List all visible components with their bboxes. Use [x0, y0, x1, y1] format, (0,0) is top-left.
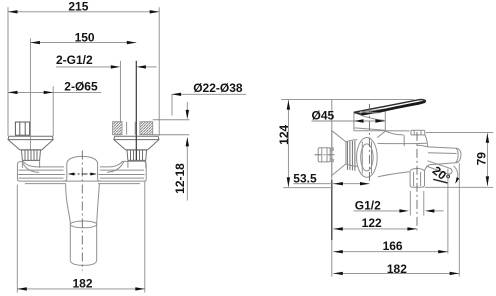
- eccentric pipe to wall: [153, 120, 190, 135]
- dim 79: [474, 133, 489, 186]
- dim Ø45: [312, 109, 385, 123]
- svg-text:182: 182: [387, 262, 407, 276]
- swivel arc leader: [454, 166, 460, 185]
- svg-text:2-G1/2: 2-G1/2: [56, 53, 93, 67]
- ext line spout tip: [458, 163, 460, 277]
- ext line lever top: [281, 99, 414, 101]
- ext lines outlet thread: [409, 191, 411, 216]
- svg-text:Ø45: Ø45: [312, 109, 335, 123]
- faucet body bar: [17, 161, 146, 183]
- dim 53.5: [293, 172, 369, 186]
- dim 182 side: [333, 262, 459, 276]
- svg-text:12-18: 12-18: [173, 163, 187, 194]
- vertical dim pipe OD upper: [186, 102, 189, 120]
- dim 124: [277, 100, 291, 187]
- nipple centerline: [315, 154, 337, 156]
- ext line left inlet center: [29, 38, 31, 149]
- wall section hatch left block: [113, 122, 122, 135]
- dim 166: [333, 239, 447, 253]
- cartridge dome: [64, 156, 101, 181]
- dim 150: [30, 31, 136, 45]
- wall line: [331, 100, 333, 277]
- dim 215: [8, 0, 159, 14]
- dim G1/2 outlet: [354, 199, 444, 213]
- diverter knob: [385, 130, 425, 135]
- right ribbed connector: [127, 150, 147, 161]
- right inlet pipe: [128, 160, 146, 167]
- cartridge dome side: [354, 109, 410, 131]
- wall section hatch right block: [140, 122, 153, 135]
- ref line outlet bottom left: [283, 187, 333, 189]
- left escutcheon: [8, 136, 53, 150]
- ext line G thread left: [119, 61, 121, 122]
- left inlet pipe: [22, 160, 39, 167]
- svg-text:182: 182: [72, 277, 92, 291]
- right union nut in section: [127, 122, 136, 135]
- body centerline side: [368, 104, 370, 184]
- body internal lines: [377, 131, 428, 171]
- svg-text:2-Ø65: 2-Ø65: [64, 80, 98, 94]
- svg-text:122: 122: [362, 216, 382, 230]
- svg-text:20°: 20°: [430, 163, 453, 185]
- svg-text:166: 166: [383, 239, 403, 253]
- svg-text:79: 79: [474, 152, 488, 166]
- left union nut: [15, 122, 29, 135]
- right escutcheon: [114, 136, 159, 150]
- dim 2-Ø65: [8, 80, 101, 95]
- svg-text:215: 215: [68, 0, 88, 14]
- ext line G thread right / inlet centerline: [135, 61, 137, 160]
- wall nipple: [318, 148, 333, 162]
- cartridge width marker: [68, 173, 97, 176]
- lever handle: [354, 100, 426, 115]
- ext line pipe leader: [171, 94, 173, 115]
- ext line escutcheon right edge: [52, 86, 54, 136]
- ext line body right end: [144, 182, 146, 293]
- 20 deg underline: [433, 179, 447, 183]
- tilted spout (20 deg position): [426, 161, 452, 174]
- ext line spout tilted tip: [447, 169, 449, 254]
- body centerline: [81, 151, 83, 271]
- ref line outlet bottom right: [425, 186, 493, 188]
- union nut oval: [346, 138, 377, 178]
- svg-text:124: 124: [277, 124, 291, 144]
- ext line left outer: [7, 7, 9, 136]
- dim 2-G1/2: [56, 53, 157, 68]
- vertical dim pipe OD lower: [186, 137, 189, 201]
- spout arm inner lines: [414, 148, 459, 186]
- adjustment rings: [347, 141, 355, 171]
- dim Ø22-Ø38 label: [172, 81, 247, 96]
- outlet centerline: [416, 132, 418, 231]
- ext line body left end: [16, 185, 18, 293]
- svg-text:Ø22-Ø38: Ø22-Ø38: [193, 81, 243, 95]
- body, spout arm and shower outlet: [378, 135, 461, 187]
- dim 122: [333, 216, 417, 230]
- side escutcheon cone: [332, 131, 346, 176]
- ext line diverter top: [426, 132, 493, 134]
- spout front silhouette: [66, 184, 100, 266]
- svg-text:150: 150: [75, 31, 95, 45]
- left ribbed connector: [22, 150, 41, 161]
- dim 182 front: [17, 277, 145, 291]
- ext line right outer: [158, 7, 160, 136]
